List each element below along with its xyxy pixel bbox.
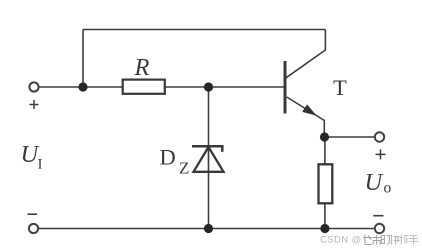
svg-text:I: I (38, 157, 43, 173)
wire: resistor R to transistor base (165, 86, 284, 88)
resistor R (123, 80, 165, 94)
svg-text:D: D (160, 145, 176, 170)
wire: collector lead down from top rail (286, 30, 325, 78)
wire: top rail (83, 29, 325, 31)
wire: bottom rail (38, 228, 375, 230)
output - terminal (375, 224, 384, 233)
watermark hanzi 手 (409, 236, 418, 245)
minus sign (input) (28, 213, 38, 215)
transistor T emitter arrow (303, 105, 315, 115)
wire: left riser from node A to top rail (82, 30, 84, 88)
junction node A (78, 82, 87, 91)
svg-text:CSDN @: CSDN @ (320, 235, 362, 246)
watermark hanzi 饼 (392, 235, 400, 245)
junction node C (320, 132, 329, 141)
wire: node C down to load resistor (324, 137, 326, 164)
plus sign (output) (376, 149, 386, 159)
junction node D (zener to bottom rail) (204, 224, 213, 233)
watermark hanzi 抓 (400, 235, 409, 245)
watermark hanzi 进 (363, 235, 372, 245)
zener diode D_Z cathode bar with right tick (192, 146, 222, 152)
svg-text:o: o (384, 180, 392, 197)
input - terminal (29, 224, 38, 233)
wire: input terminal to resistor R (39, 86, 123, 88)
svg-text:U: U (365, 169, 385, 196)
wire: load resistor to bottom rail (324, 203, 326, 228)
zener diode D_Z triangle (anode) (194, 147, 224, 172)
output + terminal (375, 132, 384, 141)
input + terminal (29, 82, 38, 91)
plus sign (input) (30, 100, 39, 109)
svg-text:Z: Z (179, 159, 189, 178)
junction node E (load to bottom rail) (320, 224, 329, 233)
wire: emitter vertical to node C (323, 120, 325, 138)
load resistor (319, 164, 333, 203)
transistor T base bar (284, 61, 287, 114)
svg-text:T: T (333, 75, 347, 100)
wire: node C to output + terminal (325, 136, 375, 138)
svg-text:R: R (134, 54, 150, 81)
transistor T emitter lead (287, 97, 325, 121)
wire: zener branch (node B down to bottom rail) (208, 87, 210, 229)
minus sign (output) (373, 215, 383, 217)
watermark hanzi 的 (381, 236, 390, 245)
watermark hanzi 击 (372, 235, 381, 245)
junction node B (204, 82, 213, 91)
